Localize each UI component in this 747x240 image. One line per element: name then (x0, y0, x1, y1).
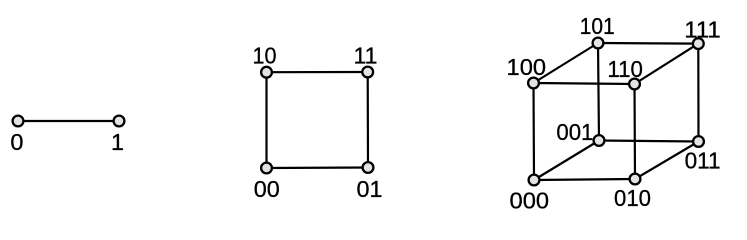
svg-text:101: 101 (580, 13, 615, 39)
svg-text:01: 01 (357, 176, 383, 202)
svg-text:001: 001 (556, 119, 593, 145)
svg-text:11: 11 (354, 42, 378, 68)
svg-text:00: 00 (254, 176, 280, 202)
svg-text:111: 111 (684, 16, 721, 42)
svg-text:010: 010 (614, 185, 651, 211)
svg-text:1: 1 (111, 129, 124, 155)
svg-text:100: 100 (507, 54, 547, 80)
svg-text:011: 011 (685, 148, 721, 174)
svg-text:10: 10 (253, 42, 277, 68)
svg-text:0: 0 (10, 129, 23, 155)
svg-text:110: 110 (607, 56, 643, 82)
svg-text:000: 000 (510, 188, 550, 214)
